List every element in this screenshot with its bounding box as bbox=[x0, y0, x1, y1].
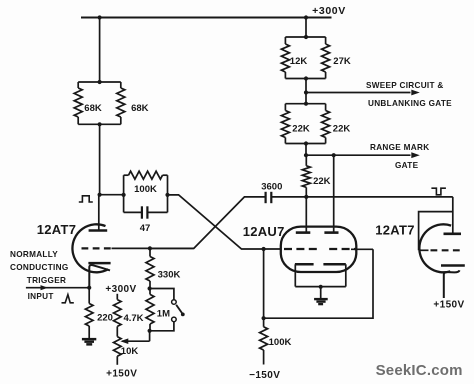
capacitor 47 right plate bbox=[146, 206, 148, 218]
wire range gate line bbox=[306, 154, 411, 156]
resistor 12K bbox=[281, 44, 289, 72]
plate 12AU7 left bbox=[296, 231, 311, 234]
svg-text:CONDUCTING: CONDUCTING bbox=[10, 263, 69, 272]
svg-text:TRIGGER: TRIGGER bbox=[27, 276, 66, 285]
wire 220 bottom lead bbox=[88, 326, 90, 338]
wire 68K pair top bar bbox=[78, 81, 121, 83]
wire crossover lower-left from left grid bbox=[150, 197, 265, 249]
wire coupling line to right tube plate bbox=[272, 196, 453, 198]
wire +300V drop to 12K/27K pair bbox=[305, 18, 307, 38]
wire 22K single top lead bbox=[305, 155, 307, 166]
svg-text:330K: 330K bbox=[158, 269, 181, 280]
node coupling to 22K single junction bbox=[304, 195, 308, 199]
resistor 22K left bbox=[281, 111, 289, 138]
wire pot bottom arm bbox=[150, 322, 174, 331]
wire grid loop right side bbox=[264, 249, 373, 318]
node 22K pair bottom junction bbox=[304, 141, 308, 145]
resistor 68K left bbox=[74, 88, 82, 117]
wire 12K/27K pair to sweep node bbox=[305, 79, 307, 93]
wire 22K single bottom lead bbox=[305, 187, 307, 197]
node left plate junction bbox=[98, 193, 102, 197]
svg-text:SeekIC.com: SeekIC.com bbox=[376, 362, 463, 379]
wire 330K top lead bbox=[149, 248, 151, 256]
svg-text:100K: 100K bbox=[134, 184, 157, 195]
arrow wiper tap into divider bbox=[120, 338, 128, 344]
cathode right 12AT7 bar bbox=[441, 264, 465, 267]
wire 12AU7 right grid out bbox=[351, 248, 373, 250]
resistor 27K bbox=[322, 44, 330, 72]
svg-text:4.7K: 4.7K bbox=[123, 313, 143, 324]
wire 68K pair left lead bottom bbox=[77, 117, 79, 124]
terminal pot upper contact bbox=[172, 300, 177, 305]
wire divider top lead bbox=[116, 294, 118, 300]
plate left 12AT7 bbox=[89, 229, 108, 232]
cathode 12AU7 right bar bbox=[323, 263, 345, 266]
node junction bus to +300V tap bbox=[304, 15, 308, 19]
grid right 12AT7 dashed bbox=[431, 249, 463, 251]
svg-text:INPUT: INPUT bbox=[28, 292, 54, 301]
svg-text:1M: 1M bbox=[157, 309, 170, 320]
tube envelope left 12AT7 bbox=[72, 224, 108, 272]
wire 100K bottom lead bbox=[263, 350, 265, 365]
svg-text:12AU7: 12AU7 bbox=[243, 224, 285, 239]
arrow sweep output bbox=[411, 90, 420, 96]
svg-text:22K: 22K bbox=[292, 123, 310, 134]
wire 12AU7 left cathode lead bbox=[294, 264, 296, 286]
svg-text:UNBLANKING GATE: UNBLANKING GATE bbox=[368, 99, 452, 108]
wire 22K pair left lead top bbox=[284, 104, 286, 111]
waveform trigger spike bbox=[62, 295, 74, 303]
wire cathode bottom bar bbox=[295, 286, 346, 288]
wire grid-plate tie loop bbox=[419, 212, 453, 251]
resistor 22K single bbox=[302, 166, 310, 188]
ground below 220 bbox=[82, 338, 96, 346]
cathode left 12AT7 hook bbox=[89, 265, 110, 288]
wire divider bottom lead bbox=[116, 356, 118, 365]
wire cathode ground stem bbox=[320, 287, 322, 298]
waveform positive pulse at left plate bbox=[79, 196, 93, 202]
wire 12AU7 right cathode lead bbox=[345, 264, 347, 286]
svg-text:12K: 12K bbox=[290, 56, 308, 67]
wiper arm of 1M pot bbox=[176, 305, 182, 314]
node range line to right plate bbox=[332, 153, 336, 157]
wire right plate drop bbox=[452, 197, 454, 234]
node 100K grid return junction bbox=[262, 316, 266, 320]
node cathode center junction bbox=[319, 285, 323, 289]
wire 12K/27K bottom bar bbox=[285, 78, 325, 80]
capacitor 47 left plate bbox=[141, 206, 143, 218]
capacitor 3600 right plate bbox=[270, 192, 272, 203]
arrow trigger input bbox=[41, 285, 49, 290]
wire 68K pair left lead top bbox=[77, 82, 79, 88]
wire 68K pair down to plate node bbox=[99, 124, 101, 194]
svg-text:220: 220 bbox=[97, 312, 113, 323]
plate right 12AT7 bbox=[444, 233, 462, 236]
wire 68K pair right lead bottom bbox=[120, 117, 122, 124]
wire grid node down to 100K bbox=[263, 249, 265, 318]
svg-text:12AT7: 12AT7 bbox=[37, 222, 77, 237]
wire 22K pair to range node bbox=[305, 144, 307, 156]
tube envelope right 12AT7 bbox=[419, 224, 451, 272]
wire RC box bottom right stub bbox=[147, 211, 167, 213]
wire left plate lead bbox=[98, 195, 100, 231]
node 12K/27K top junction bbox=[304, 35, 308, 39]
wire right plate lead of 12AU7 bbox=[333, 155, 335, 233]
node grid feedback junction bbox=[262, 247, 266, 251]
wire left grid out to 330K node bbox=[112, 247, 194, 249]
resistor 100K grid return bbox=[260, 327, 268, 350]
wire 1M node down to wiper line bbox=[149, 331, 151, 341]
resistor 220 bbox=[85, 304, 93, 327]
resistor 100K feedback bbox=[129, 171, 163, 179]
grid 12AU7 dashed right bbox=[329, 248, 356, 250]
svg-text:+300V: +300V bbox=[312, 5, 346, 17]
svg-text:GATE: GATE bbox=[395, 161, 419, 170]
grid 12AU7 dashed left bbox=[284, 248, 317, 250]
svg-text:SWEEP CIRCUIT &: SWEEP CIRCUIT & bbox=[366, 81, 444, 90]
wire top +300V supply bus bbox=[81, 17, 332, 19]
wire 27K right lead top bbox=[325, 37, 327, 44]
svg-text:27K: 27K bbox=[333, 56, 351, 67]
node sweep output junction bbox=[304, 90, 308, 94]
wire trigger input line bbox=[26, 287, 89, 289]
wire 220 top lead bbox=[88, 288, 90, 304]
wire 12K left lead top bbox=[284, 37, 286, 44]
node 22K pair top junction bbox=[304, 102, 308, 106]
resistor 1M bbox=[146, 294, 154, 324]
wire pot top arm bbox=[150, 289, 174, 300]
wire RC box bottom left stub bbox=[124, 211, 142, 213]
cathode 12AU7 left bar bbox=[295, 263, 314, 266]
wire sweep output line bbox=[306, 92, 411, 94]
node trigger cathode junction bbox=[87, 286, 91, 290]
cathode right 12AT7 hook bbox=[444, 270, 460, 298]
wire left branch drop to 68K pair bbox=[99, 18, 101, 83]
node 12K/27K bottom junction bbox=[304, 76, 308, 80]
wire 27K right lead bottom bbox=[325, 72, 327, 79]
svg-text:+150V: +150V bbox=[433, 299, 464, 310]
tube envelope 12AU7 bbox=[281, 227, 357, 272]
wire 330K bottom lead bbox=[149, 281, 151, 289]
wire divider middle lead bbox=[116, 326, 118, 336]
svg-text:−150V: −150V bbox=[249, 370, 280, 381]
grid left 12AT7 dashed bbox=[82, 247, 113, 249]
svg-text:22K: 22K bbox=[313, 176, 331, 187]
svg-text:RANGE MARK: RANGE MARK bbox=[370, 143, 429, 152]
wire 22K pair right lead bottom bbox=[325, 138, 327, 144]
node RC box right junction bbox=[165, 193, 169, 197]
svg-text:+300V: +300V bbox=[105, 284, 136, 295]
wire 12AU7 left plate lead bbox=[305, 197, 307, 233]
resistor 10K bbox=[114, 337, 122, 357]
node grid to 330K junction bbox=[148, 246, 152, 250]
resistor 22K right bbox=[322, 111, 330, 138]
svg-text:10K: 10K bbox=[121, 346, 139, 357]
wire 1M top lead bbox=[149, 289, 151, 295]
node junction bus to left branch bbox=[98, 15, 102, 19]
wire 1M bottom lead bbox=[149, 324, 151, 331]
cathode left 12AT7 bar bbox=[88, 262, 110, 265]
ground below 12AU7 cathodes bbox=[314, 298, 328, 305]
svg-text:+150V: +150V bbox=[106, 369, 137, 380]
wire sweep node down to 22K pair bbox=[305, 93, 307, 104]
wire 12K left lead bottom bbox=[284, 72, 286, 79]
node RC box left junction bbox=[122, 193, 126, 197]
node 1M bottom junction bbox=[148, 329, 152, 333]
wire RC box top right stub bbox=[163, 174, 168, 176]
wire RC box right side bbox=[167, 175, 169, 212]
resistor 330K bbox=[146, 257, 154, 282]
svg-text:100K: 100K bbox=[269, 337, 292, 348]
svg-text:NORMALLY: NORMALLY bbox=[10, 250, 58, 259]
capacitor 3600 left plate bbox=[265, 192, 267, 203]
node 68K pair bottom junction bbox=[98, 122, 102, 126]
wire crossover upper-left to 12AU7 grid bbox=[168, 195, 282, 249]
svg-text:12AT7: 12AT7 bbox=[375, 222, 415, 237]
node 330K to 1M junction bbox=[148, 286, 152, 290]
node range gate junction bbox=[304, 153, 308, 157]
wire 22K pair left lead bottom bbox=[284, 138, 286, 144]
wire 100K top lead bbox=[263, 318, 265, 327]
wire 22K pair top bar bbox=[285, 103, 325, 105]
wire RC box left side bbox=[123, 175, 125, 212]
wire wiper tap line bbox=[122, 340, 150, 342]
svg-text:3600: 3600 bbox=[261, 182, 282, 193]
wire 12K/27K top bar bbox=[285, 36, 325, 38]
svg-text:47: 47 bbox=[140, 223, 151, 234]
wire 22K pair right lead top bbox=[325, 104, 327, 111]
wire 22K pair bottom bar bbox=[285, 143, 325, 145]
svg-text:22K: 22K bbox=[333, 123, 351, 134]
waveform negative gate pulse bbox=[431, 188, 446, 195]
wire 68K pair bottom bar bbox=[78, 123, 121, 125]
arrow range gate bbox=[411, 152, 420, 158]
wire 68K pair right lead top bbox=[120, 82, 122, 88]
svg-text:68K: 68K bbox=[84, 103, 102, 114]
node 68K pair top junction bbox=[98, 80, 102, 84]
plate 12AU7 right bbox=[324, 231, 338, 234]
wire RC box top left stub bbox=[124, 174, 129, 176]
wire right grid stub bbox=[419, 249, 429, 251]
resistor 68K right bbox=[117, 88, 125, 117]
wiper arm tip blob bbox=[181, 313, 185, 317]
svg-text:68K: 68K bbox=[131, 103, 149, 114]
terminal pot lower contact bbox=[172, 317, 177, 322]
wire plate node to 100K box bbox=[100, 194, 124, 196]
resistor 4.7K bbox=[114, 300, 122, 327]
